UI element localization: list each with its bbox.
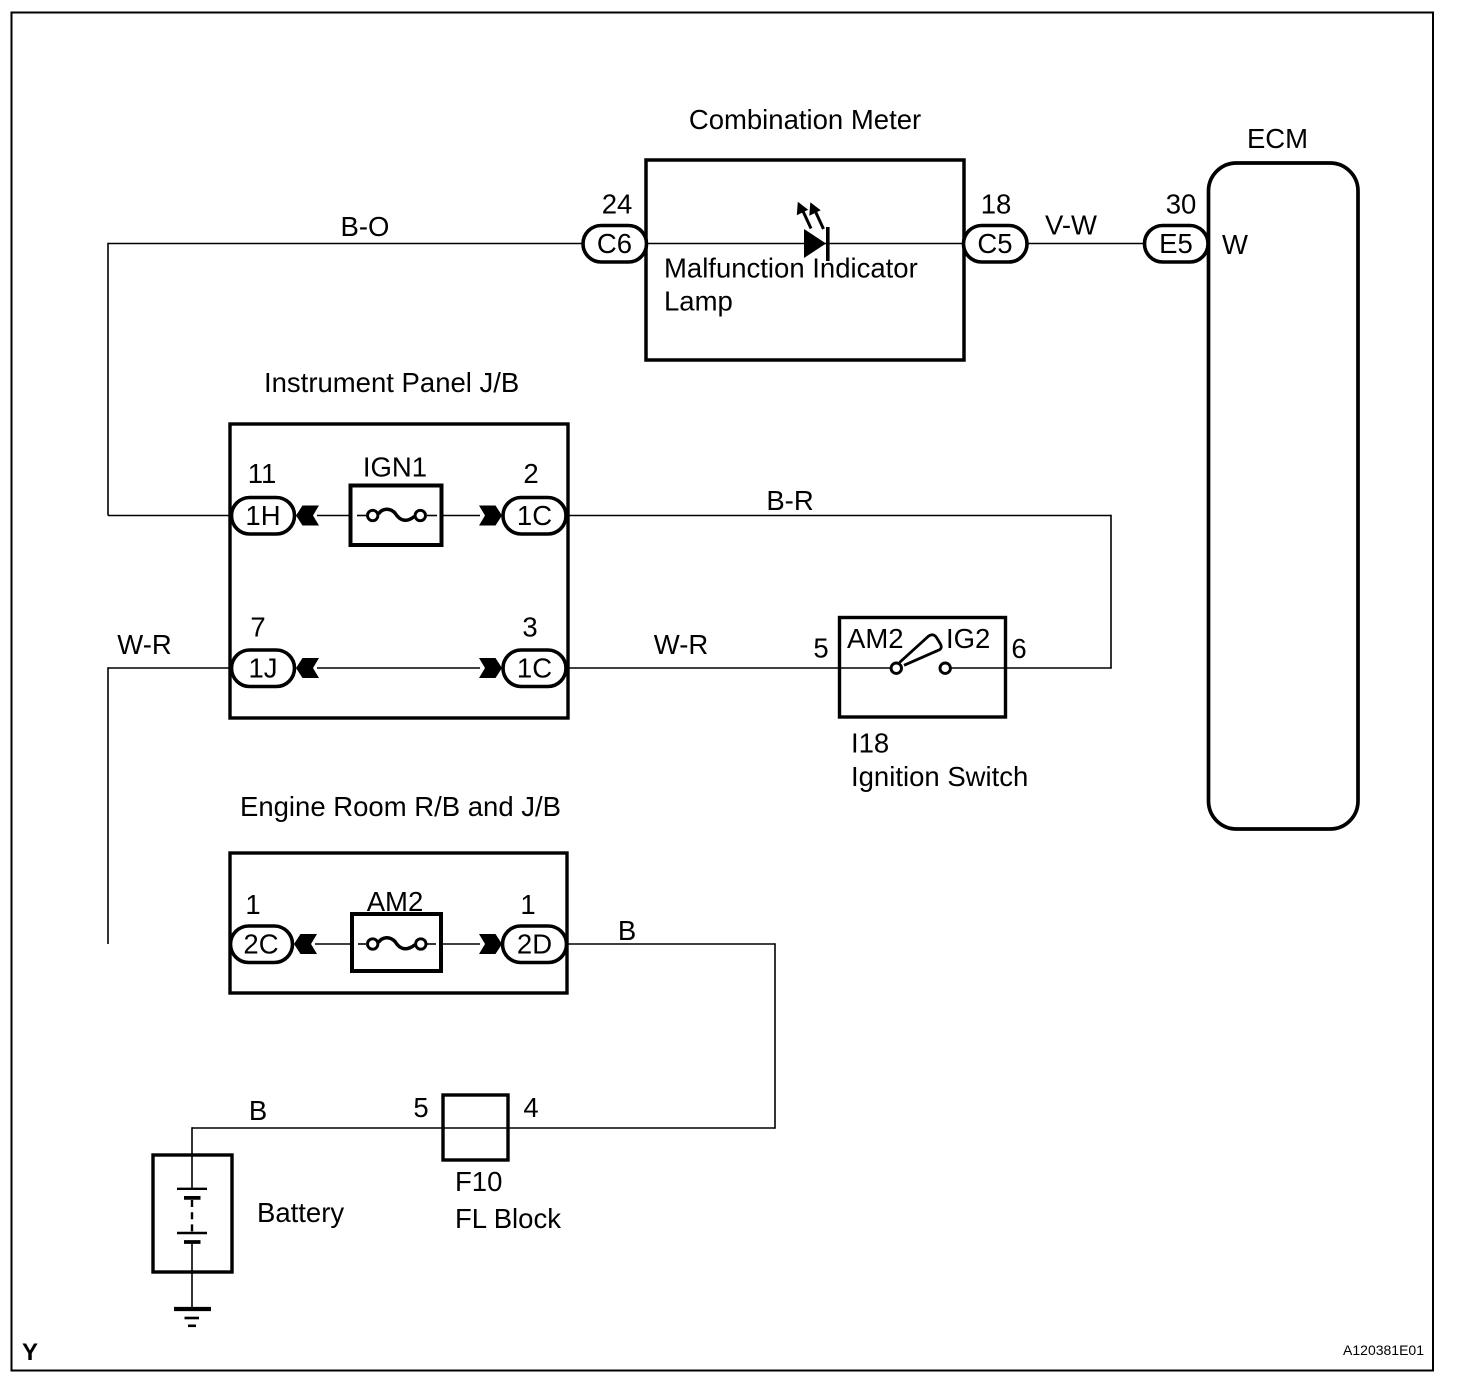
svg-text:E5: E5 — [1159, 228, 1193, 259]
connector C5 pin 18 — [964, 226, 1028, 263]
svg-text:1C: 1C — [517, 500, 552, 531]
battery lead top — [191, 1127, 193, 1188]
svg-text:Y: Y — [22, 1339, 38, 1366]
fusible link F10 block — [443, 1095, 508, 1160]
svg-text:Ignition Switch: Ignition Switch — [851, 761, 1028, 792]
switch contact AM2 — [891, 663, 901, 673]
arrow into 1C bottom — [479, 658, 502, 678]
connector C6 pin 24 — [583, 226, 647, 263]
svg-text:1C: 1C — [517, 653, 552, 684]
svg-text:24: 24 — [602, 189, 633, 220]
wire 1J to 1C — [317, 667, 480, 669]
svg-text:30: 30 — [1166, 189, 1197, 220]
fuse IGN1 — [351, 486, 442, 546]
svg-text:Instrument Panel J/B: Instrument Panel J/B — [264, 367, 519, 398]
svg-text:AM2: AM2 — [847, 623, 904, 654]
wire V-W — [1026, 243, 1145, 245]
svg-text:B: B — [618, 915, 636, 946]
svg-text:W-R: W-R — [654, 629, 708, 660]
ignition switch I18 box — [840, 618, 1006, 718]
svg-text:1J: 1J — [248, 653, 277, 684]
wire to ignition switch pin 6 — [1006, 667, 1112, 669]
battery cell plates — [177, 1189, 207, 1272]
svg-text:2D: 2D — [517, 929, 552, 960]
svg-text:IGN1: IGN1 — [363, 452, 427, 483]
arrow into 1C top — [479, 506, 502, 526]
svg-text:FL Block: FL Block — [455, 1203, 561, 1234]
svg-text:ECM: ECM — [1247, 123, 1308, 154]
connector 2D pin 1 — [503, 926, 567, 963]
svg-text:I18: I18 — [851, 728, 889, 759]
battery box — [153, 1155, 232, 1272]
connector 2C pin 1 — [231, 926, 293, 963]
svg-text:A120381E01: A120381E01 — [1343, 1342, 1424, 1358]
svg-text:5: 5 — [413, 1092, 428, 1123]
svg-text:B-O: B-O — [341, 211, 390, 242]
connector 1C pin 3 — [503, 650, 566, 687]
svg-text:6: 6 — [1011, 633, 1026, 664]
svg-text:Battery: Battery — [257, 1197, 344, 1228]
wire B bottom row — [192, 1127, 775, 1129]
svg-text:4: 4 — [523, 1092, 538, 1123]
arrow into 1J — [296, 658, 319, 678]
svg-text:W: W — [1222, 229, 1248, 260]
wire B-R vertical — [1110, 515, 1112, 668]
svg-text:B: B — [249, 1095, 267, 1126]
connector 1C pin 2 — [503, 498, 566, 535]
svg-text:1H: 1H — [245, 500, 280, 531]
svg-text:Combination Meter: Combination Meter — [689, 104, 921, 135]
connector 1H pin 11 — [232, 498, 295, 535]
svg-text:W-R: W-R — [117, 629, 171, 660]
svg-text:2: 2 — [523, 458, 538, 489]
Combination Meter box — [646, 160, 964, 360]
battery lead bottom — [191, 1272, 193, 1307]
switch wires inside — [840, 667, 892, 669]
wire B-O horizontal top — [108, 243, 582, 245]
svg-text:C5: C5 — [977, 228, 1012, 259]
svg-text:2C: 2C — [243, 929, 278, 960]
wire IGN1 to 1C — [441, 515, 480, 517]
wire B-R — [566, 515, 1111, 517]
svg-text:Engine Room R/B and J/B: Engine Room R/B and J/B — [240, 791, 561, 822]
wire W-R left horizontal — [108, 667, 232, 669]
wire into 1H — [108, 515, 232, 517]
svg-text:Lamp: Lamp — [664, 286, 733, 317]
svg-text:3: 3 — [522, 612, 537, 643]
LED D (Malfunction Indicator Lamp) — [797, 202, 830, 261]
wire B-O vertical left — [107, 243, 109, 516]
arrow into 2D — [479, 934, 502, 954]
wire W-R mid — [566, 667, 838, 669]
wire 2C to AM2 — [315, 943, 353, 945]
Instrument Panel J/B box — [230, 424, 568, 718]
connector E5 pin 30 — [1145, 226, 1209, 263]
svg-text:1: 1 — [520, 889, 535, 920]
svg-text:18: 18 — [981, 189, 1012, 220]
connector 1J pin 7 — [232, 650, 295, 687]
svg-text:AM2: AM2 — [367, 886, 424, 917]
Engine Room R/B and J/B box — [230, 853, 567, 993]
svg-text:11: 11 — [248, 458, 277, 489]
arrow into 2C — [294, 934, 317, 954]
svg-text:Malfunction Indicator: Malfunction Indicator — [664, 253, 918, 284]
ground — [174, 1309, 211, 1326]
wire B from 2D — [567, 943, 775, 945]
switch contact IG2 — [940, 663, 950, 673]
wire W-R vertical left — [107, 667, 109, 944]
arrow into 1H — [296, 506, 319, 526]
wire 1H to IGN1 — [317, 515, 352, 517]
svg-text:5: 5 — [813, 633, 828, 664]
svg-text:1: 1 — [245, 889, 260, 920]
wire AM2 to 2D — [440, 943, 480, 945]
svg-text:7: 7 — [250, 612, 265, 643]
svg-text:F10: F10 — [455, 1166, 502, 1197]
fuse AM2 — [352, 914, 441, 971]
switch lever — [900, 635, 942, 666]
svg-text:B-R: B-R — [766, 485, 813, 516]
svg-text:V-W: V-W — [1045, 210, 1097, 241]
svg-text:C6: C6 — [597, 228, 632, 259]
wire inside combination meter — [647, 243, 963, 245]
svg-text:IG2: IG2 — [946, 623, 990, 654]
wire B vertical right — [774, 943, 776, 1129]
ECM box — [1209, 163, 1359, 829]
